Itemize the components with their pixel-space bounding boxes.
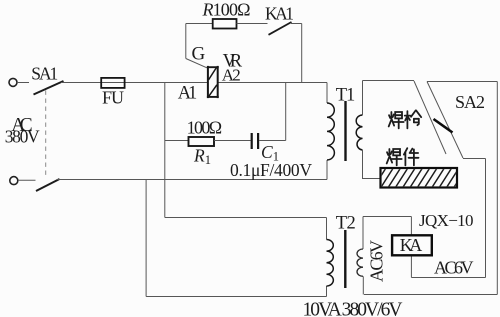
wire T2 secondary top lead xyxy=(362,217,364,250)
svg-text:10VA 380V/6V: 10VA 380V/6V xyxy=(303,300,403,317)
switch SA2 blade (thick) xyxy=(434,119,453,133)
switch SA1 mechanical link (dashed) xyxy=(45,91,47,178)
wire bottom terminal to SA1 lower pole xyxy=(18,179,36,181)
transformer T1 secondary winding xyxy=(356,115,362,150)
svg-text:AC6V: AC6V xyxy=(434,258,474,278)
svg-text:JQX−10: JQX−10 xyxy=(419,211,474,230)
resistor R 100ohm (gate) xyxy=(213,19,237,29)
switch SA2 contact diagonal xyxy=(427,82,463,159)
wire triac A2 to T1 primary top xyxy=(218,82,327,84)
wire snubber left vertical A1-side xyxy=(164,83,166,218)
wire top terminal to SA1 xyxy=(17,82,29,84)
wire out of KA coil bottom xyxy=(410,255,412,277)
svg-text:SA2: SA2 xyxy=(455,92,485,112)
svg-text:A2: A2 xyxy=(222,65,241,84)
wire SA2 lower to right drop xyxy=(463,158,486,160)
wire T1 secondary top lead xyxy=(362,81,364,116)
wire gate branch to R xyxy=(186,23,213,25)
transformer T2 primary leads xyxy=(326,218,328,240)
svg-text:FU: FU xyxy=(102,88,124,108)
label hanqiang (welding gun) CJK drawn xyxy=(389,110,422,128)
wire 6V loop bottom xyxy=(364,294,497,296)
wire R to KA1 contact xyxy=(237,23,268,25)
triac VR xyxy=(207,66,219,98)
node L1 top input terminal xyxy=(9,78,17,86)
svg-text:KA: KA xyxy=(400,235,423,255)
transformer T2 core xyxy=(344,230,346,288)
wire SA2 vertical down to KA coil return xyxy=(485,159,487,278)
welding gun electrode diagonal xyxy=(414,81,446,154)
svg-text:AC6V: AC6V xyxy=(367,240,387,282)
resistor R1 100ohm snubber xyxy=(189,137,215,146)
wire bottom rail to T1 primary bottom xyxy=(57,179,327,181)
wire through fuse to triac A1 xyxy=(101,82,207,84)
wire into KA coil top xyxy=(410,217,412,236)
wire T1 secondary top to gun xyxy=(363,80,415,82)
wire SA1 to FU xyxy=(61,82,101,84)
wire R1 to C1 xyxy=(214,140,251,142)
wire 6V loop top right xyxy=(427,81,497,83)
svg-text:380V: 380V xyxy=(5,127,40,147)
svg-text:R100Ω: R100Ω xyxy=(202,0,251,20)
workpiece bar (hatched) xyxy=(374,168,466,188)
wire T2 secondary bottom lead xyxy=(362,276,364,294)
svg-text:T2: T2 xyxy=(336,213,356,233)
node L2 bottom input terminal xyxy=(10,177,18,185)
wire KA1 branch vertical down to A2 rail xyxy=(301,24,303,83)
transformer T2 secondary winding xyxy=(357,249,363,276)
switch SA1 upper pole blade xyxy=(34,81,64,95)
svg-text:T1: T1 xyxy=(336,85,356,105)
wire T2 primary feed horizontal xyxy=(165,217,327,219)
capacitor C1 plates xyxy=(251,133,253,149)
svg-text:G: G xyxy=(192,44,206,65)
svg-text:A1: A1 xyxy=(178,84,198,104)
transformer T1 primary winding xyxy=(327,103,334,160)
wire gate branch vertical xyxy=(185,24,187,59)
wire 6V loop right edge xyxy=(496,82,498,295)
transformer T2 primary winding xyxy=(327,240,334,287)
fuse FU xyxy=(101,78,124,88)
svg-text:0.1μF/400V: 0.1μF/400V xyxy=(230,160,312,180)
wire T1 secondary bottom lead xyxy=(363,150,382,179)
relay contact KA1 blade xyxy=(269,22,292,35)
wire T2 loop bottom xyxy=(146,296,326,298)
wire T2 return vertical xyxy=(145,180,147,297)
svg-text:KA1: KA1 xyxy=(265,4,294,24)
transformer T1 primary leads xyxy=(326,83,328,104)
svg-text:SA1: SA1 xyxy=(31,64,58,84)
label hanjian (workpiece) CJK drawn xyxy=(387,148,419,165)
wire A1 side to R1 xyxy=(165,140,189,142)
switch SA1 lower pole blade xyxy=(36,179,60,191)
transformer T1 core xyxy=(344,101,346,161)
wire C1 to A2-side riser xyxy=(259,140,286,142)
wire relay inner top xyxy=(363,216,411,218)
svg-text:100Ω: 100Ω xyxy=(187,118,223,138)
relay coil KA box xyxy=(392,235,432,255)
wire KA1 to A2-side drop xyxy=(291,23,302,25)
wire snubber right vertical to A2 rail xyxy=(285,83,287,141)
wire KA bottom to SA2 drop xyxy=(411,277,485,279)
wire gate lead diagonal to triac G xyxy=(186,59,207,68)
